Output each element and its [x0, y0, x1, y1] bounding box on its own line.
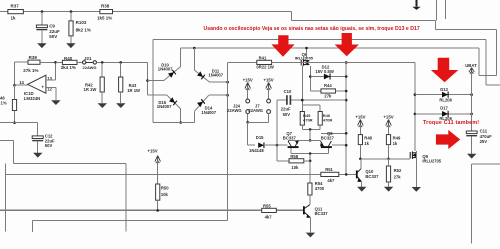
jumper J7 — [267, 99, 271, 103]
wire D11 vertical — [193, 48, 195, 70]
svg-text:470R: 470R — [323, 118, 333, 123]
wire gate row to Q9 — [360, 158, 408, 160]
node R45 R46 bottom — [309, 128, 312, 131]
resistor R46 — [318, 112, 322, 126]
node D12 right — [345, 75, 348, 78]
supply arrow +15V J7 — [266, 83, 272, 91]
wire bottom right exit — [471, 163, 500, 165]
wire C12 stem — [37, 123, 39, 136]
wire D15 node down — [276, 145, 278, 161]
wire D10 diagonal — [164, 67, 181, 81]
svg-text:50V: 50V — [49, 34, 57, 39]
transistor Q7 BC337 — [288, 141, 299, 148]
node junction R103 — [70, 10, 73, 13]
svg-text:27k 1%: 27k 1% — [23, 68, 38, 73]
svg-text:0R22 1W: 0R22 1W — [256, 64, 274, 69]
wire gate drive down — [301, 66, 303, 105]
node op-amp output — [13, 84, 16, 87]
node D15 C10 Q7 — [276, 144, 279, 147]
node D17 UBAT — [470, 113, 473, 116]
svg-text:R38: R38 — [101, 4, 110, 9]
svg-text:IRLU2705: IRLU2705 — [295, 55, 314, 60]
ground R42 — [98, 103, 107, 108]
wire D12 row — [310, 76, 346, 78]
wire R48 down — [359, 145, 361, 159]
wire +15V to R48 — [359, 125, 361, 135]
wire R52 to ground — [388, 182, 390, 187]
ground Q10 — [357, 187, 366, 192]
svg-text:R58: R58 — [290, 154, 298, 159]
svg-text:1N4007: 1N4007 — [158, 67, 173, 72]
ground R103 — [66, 43, 75, 48]
node J24 J7 join — [246, 121, 249, 124]
svg-text:4700: 4700 — [315, 186, 325, 191]
node D13 left — [414, 93, 417, 96]
wire +15V to J24 — [247, 88, 249, 100]
resistor R48 — [358, 135, 362, 145]
red arrow 4 right — [436, 130, 460, 149]
transistor Q6 IRLU2705 MOSFET — [301, 59, 309, 65]
svg-text:27k: 27k — [394, 174, 402, 179]
wire stub from top edge 2 — [444, 0, 446, 19]
resistor R103 — [69, 21, 73, 36]
transistor Q10 BC337 — [357, 169, 362, 182]
wire feedback left vertical — [14, 62, 16, 84]
svg-text:D13: D13 — [440, 87, 448, 92]
resistor R37 — [8, 10, 24, 14]
svg-text:1k: 1k — [364, 141, 369, 146]
resistor R42 — [100, 77, 104, 92]
wire R43 to ground — [120, 92, 122, 103]
wire R45 stem bottom — [301, 125, 303, 129]
wire R46 to node — [14, 111, 16, 123]
wire corner down — [13, 140, 15, 163]
ground C11 — [467, 154, 476, 159]
wire C12 to ground — [37, 141, 39, 153]
wire R39 right to node — [40, 61, 56, 63]
resistor R52 — [386, 166, 390, 182]
wire R42 stem — [101, 62, 103, 77]
wire D13 row — [415, 94, 472, 96]
svg-text:+15V: +15V — [148, 149, 158, 154]
capacitor C12 — [32, 136, 43, 139]
node bridge feed — [146, 79, 149, 82]
svg-text:+15V: +15V — [264, 77, 274, 82]
wire pin12 to ground — [55, 88, 57, 101]
wire bus B signal — [5, 173, 321, 175]
wire D10 entry — [148, 80, 164, 82]
diode D11 1N4007 — [197, 71, 205, 79]
ground op-amp — [51, 100, 60, 105]
wire Q9 drain — [415, 151, 417, 153]
wire loop top rail — [153, 38, 486, 40]
node C12 rail — [13, 121, 16, 124]
svg-text:R52: R52 — [394, 168, 402, 173]
wire bridge bottom rail — [153, 122, 194, 124]
svg-text:BC327: BC327 — [321, 135, 335, 140]
svg-text:25V: 25V — [480, 139, 488, 144]
node R48 Q10 — [359, 158, 362, 161]
svg-text:14: 14 — [19, 80, 24, 85]
wire R58 left — [277, 160, 289, 162]
svg-text:15V 0.5W: 15V 0.5W — [315, 69, 333, 74]
node rail D11 — [226, 81, 229, 84]
wire to collector rail — [309, 129, 311, 140]
diode D14 1N4007 — [197, 99, 205, 107]
wire D14 vertical — [193, 111, 195, 122]
svg-text:1N4007: 1N4007 — [201, 110, 216, 115]
wire step down — [291, 12, 293, 21]
op-amp IC1D LM324N — [28, 75, 46, 93]
node R44 right — [345, 90, 348, 93]
wire gate to Q9 — [409, 158, 411, 160]
wire output to R46 — [14, 85, 16, 99]
svg-text:+15V: +15V — [355, 114, 365, 119]
node R50 bus C — [156, 209, 159, 212]
wire Q8 emitter down — [328, 148, 330, 154]
svg-text:1%: 1% — [1, 101, 7, 106]
wire top node rail long — [181, 47, 479, 49]
wire R42 to ground — [101, 92, 103, 103]
wire D10 vertical up — [180, 48, 182, 67]
jumper J24 — [246, 99, 250, 103]
wire Q10 emitter — [361, 182, 363, 187]
svg-text:22AWG: 22AWG — [83, 65, 97, 70]
wire D11 diagonal — [194, 70, 209, 82]
wire stub from top edge 1 — [435, 0, 437, 20]
svg-text:22AWG: 22AWG — [248, 108, 263, 113]
diode D15 1N4148 — [258, 142, 264, 147]
node R58 right — [309, 160, 312, 163]
wire gate rail to D13 drop — [300, 61, 415, 63]
wire bus D — [32, 220, 227, 222]
svg-text:D17: D17 — [440, 105, 448, 110]
wire D15 to node — [265, 144, 277, 146]
wire C9 stem — [41, 12, 43, 25]
wire Q6 block right vertical — [345, 62, 347, 174]
wire Q11 emitter down — [309, 218, 311, 233]
node R39 R40 pin13 — [54, 61, 57, 64]
wire bus D left drop — [31, 221, 33, 232]
wire to R52 — [388, 159, 390, 166]
node R49 R52 — [387, 158, 390, 161]
ground R52 — [384, 187, 393, 192]
svg-text:R48: R48 — [364, 135, 372, 140]
wire R45 stem top — [301, 105, 303, 112]
wire UBAT vertical — [471, 72, 473, 131]
diode D10 1N4007 — [168, 70, 176, 78]
node Q10 base rail — [345, 173, 348, 176]
wire loop exit right — [486, 84, 500, 86]
node R43 top — [119, 61, 122, 64]
wire stepped rail — [292, 19, 436, 21]
node gate rail — [345, 61, 348, 64]
wire pin12 — [46, 87, 56, 89]
svg-text:1R 1W: 1R 1W — [127, 88, 140, 93]
node bridge bottom — [179, 121, 182, 124]
arrow down annotation black — [416, 0, 418, 7]
wire bus C — [0, 209, 303, 211]
node C10 rail right — [345, 99, 348, 102]
wire R40 to J21 — [77, 61, 83, 63]
wire J21 to bridge — [96, 61, 147, 63]
wire Q9 source down — [415, 158, 417, 187]
svg-text:R40: R40 — [64, 56, 73, 61]
wire Q8 base — [332, 144, 346, 146]
resistor R38 — [100, 10, 113, 14]
wire top node drop right — [478, 48, 480, 75]
svg-text:R49: R49 — [393, 135, 401, 140]
svg-text:UBAT: UBAT — [465, 63, 477, 68]
wire J24 down — [247, 114, 249, 123]
resistor R41 — [257, 60, 272, 64]
wire jumper join — [248, 121, 269, 123]
svg-text:R50: R50 — [161, 185, 169, 190]
wire Q6 drain up — [306, 48, 308, 59]
wire R46 stem top — [319, 105, 321, 112]
svg-text:J21: J21 — [84, 56, 92, 61]
ground C12 — [33, 153, 42, 158]
wire R44 row left — [310, 90, 321, 92]
wire R45 R46 top rail — [302, 104, 320, 106]
node R42 top — [101, 61, 104, 64]
wire R46 stem bottom — [319, 125, 321, 129]
svg-text:R44: R44 — [324, 83, 332, 88]
resistor R40 — [62, 60, 77, 64]
svg-text:+: + — [41, 85, 44, 90]
resistor R46 left edge — [12, 100, 16, 111]
svg-text:R39: R39 — [29, 55, 38, 60]
wire D16 entry — [148, 94, 168, 96]
wire loop right drop — [485, 39, 487, 85]
wire top signal rail — [0, 11, 292, 13]
node Q6 drain — [305, 47, 308, 50]
node D17 left — [414, 113, 417, 116]
wire pin13 — [46, 79, 56, 81]
wire R43 stem — [120, 62, 122, 77]
wire step down 2 — [435, 20, 437, 29]
node D11 top — [193, 47, 196, 50]
svg-text:BC337: BC337 — [365, 174, 379, 179]
wire joining link — [479, 74, 497, 76]
red arrow 3 down large — [431, 58, 458, 82]
node collector rail — [309, 139, 312, 142]
svg-text:4k7: 4k7 — [327, 178, 335, 183]
wire D11 out — [210, 81, 228, 83]
node branch — [345, 132, 348, 135]
diode D16 1N4007 — [169, 97, 177, 105]
supply arrow +15V R50 — [155, 156, 161, 164]
wire branch to Q8 — [321, 132, 346, 134]
wire stepped rail 2 — [436, 28, 497, 30]
svg-text:IRLU2705: IRLU2705 — [422, 159, 441, 164]
supply arrow +15V R49 — [386, 120, 392, 128]
wire collector rail — [288, 139, 320, 141]
supply arrow UBAT — [469, 68, 474, 75]
svg-text:RL206: RL206 — [439, 98, 452, 103]
svg-text:BC337: BC337 — [283, 135, 297, 140]
resistor R39 — [28, 60, 40, 64]
ground Q11 — [306, 233, 315, 238]
wire Q7 emitter down — [290, 148, 292, 154]
wire Q6 source down — [309, 66, 311, 91]
wire left edge entry — [0, 139, 14, 141]
resistor R43 — [119, 77, 123, 92]
svg-text:22AWG: 22AWG — [227, 108, 242, 113]
svg-text:Troque C11 tambem!: Troque C11 tambem! — [423, 120, 479, 126]
wire bridge right rail — [227, 62, 229, 220]
svg-text:8k2 1%: 8k2 1% — [76, 28, 91, 33]
svg-text:4k7: 4k7 — [265, 215, 273, 220]
red arrow 2 down — [335, 33, 359, 56]
wire emitter rail — [291, 153, 329, 155]
red arrow 1 down — [271, 35, 294, 57]
svg-text:R37: R37 — [11, 4, 20, 9]
transistor Q11 BC337 — [304, 205, 311, 218]
svg-text:1k: 1k — [393, 141, 398, 146]
ground C9 — [37, 43, 46, 48]
diode D17 RL206 — [442, 111, 448, 117]
svg-text:1N4148: 1N4148 — [249, 148, 264, 153]
wire bus A — [14, 162, 127, 164]
wire R49 down — [388, 145, 390, 159]
wire rail to R41 — [228, 61, 257, 63]
svg-text:LM324N: LM324N — [24, 96, 40, 101]
svg-text:3k4 1%: 3k4 1% — [61, 65, 76, 70]
wire bus A drop — [125, 163, 127, 231]
ground R43 — [116, 103, 125, 108]
svg-text:1k: 1k — [11, 16, 17, 21]
diode D13 RL206 — [442, 92, 448, 98]
svg-text:Usando o osciloscópio Veja se: Usando o osciloscópio Veja se os sinais … — [204, 26, 420, 32]
capacitor C11 — [466, 131, 477, 134]
svg-text:50V: 50V — [45, 143, 53, 148]
wire left stub vertical — [4, 163, 6, 231]
svg-text:D15: D15 — [256, 135, 264, 140]
svg-text:R103: R103 — [76, 20, 87, 25]
svg-text:1k5 1%: 1k5 1% — [97, 16, 112, 21]
resistor R54 — [308, 183, 312, 195]
ground arrow Q9 source — [412, 187, 421, 192]
resistor R58 — [289, 159, 304, 163]
transistor Q9 IRLU2705 MOSFET — [410, 151, 416, 159]
transistor Q8 BC327 — [320, 141, 332, 147]
svg-text:10k: 10k — [161, 192, 169, 197]
wire right edge drop — [495, 29, 497, 75]
node gate drive x C10 — [301, 99, 304, 102]
node junction C9 — [41, 10, 44, 13]
resistor R49 — [386, 135, 390, 145]
node Q8 base rail — [345, 144, 348, 147]
wire C10 left down — [276, 100, 278, 145]
wire C10 right — [291, 99, 346, 101]
wire D17 row — [415, 113, 472, 115]
wire R45 R46 bottom rail — [302, 128, 320, 130]
svg-text:R51: R51 — [325, 167, 333, 172]
wire D16 vertical down — [180, 109, 182, 123]
resistor R50 — [156, 184, 160, 200]
svg-text:27k: 27k — [324, 93, 332, 98]
wire left rail to C12 — [0, 122, 38, 124]
svg-text:+15V: +15V — [243, 77, 253, 82]
wire bottom right drop — [470, 164, 472, 244]
wire R39 left — [15, 61, 29, 63]
wire +15V to R50 — [157, 161, 159, 184]
svg-text:1N4007: 1N4007 — [208, 72, 223, 77]
wire D16 diagonal — [167, 95, 181, 109]
node D12 left — [309, 75, 312, 78]
wire bridge feed vertical — [147, 62, 149, 95]
wire +15V to J7 — [268, 88, 270, 100]
supply arrow +15V R48 — [358, 120, 364, 128]
wire R103 to ground — [70, 36, 72, 43]
svg-text:1R 1W: 1R 1W — [84, 87, 97, 92]
svg-text:C10: C10 — [284, 89, 292, 94]
resistor R51 — [321, 172, 339, 176]
svg-text:R41: R41 — [259, 55, 267, 60]
wire R54 to Q11 — [309, 195, 311, 205]
wire R41 to Q6 gate — [272, 61, 300, 63]
diode D12 zener 15V — [324, 74, 330, 80]
wire emitter down to R54 — [309, 154, 311, 183]
svg-text:10k: 10k — [291, 165, 299, 170]
wire to D15 — [248, 144, 256, 146]
svg-text:470R: 470R — [303, 118, 313, 123]
capacitor C10 — [286, 95, 288, 105]
wire loop left edge — [152, 39, 154, 122]
node emitter rail — [309, 152, 312, 155]
wire R51 to Q10 — [339, 173, 357, 175]
wire down to D13 D17 rail — [414, 62, 416, 150]
wire R103 stem — [70, 12, 72, 22]
wire Q10 collector — [360, 159, 362, 169]
wire D14 out — [209, 94, 228, 96]
supply arrow +15V J24 — [245, 83, 251, 91]
wire Q7 base — [277, 144, 288, 146]
resistor R44 — [321, 89, 336, 93]
node rail D14 — [226, 94, 229, 97]
wire R50 down — [157, 200, 159, 210]
wire R58 right — [304, 160, 310, 162]
wire C9 to ground — [41, 30, 43, 43]
node D13 UBAT — [470, 93, 473, 96]
capacitor C9 — [36, 25, 47, 28]
resistor R55 — [262, 208, 277, 212]
jumper J21 — [83, 61, 86, 64]
wire +15V to R49 — [388, 125, 390, 135]
wire op-amp output — [15, 84, 28, 86]
wire C10 left — [277, 99, 286, 101]
resistor R45 — [300, 112, 304, 126]
svg-text:R55: R55 — [263, 203, 271, 208]
wire C11 to ground — [471, 136, 473, 153]
wire R44 row right — [336, 90, 347, 92]
wire node to pin13 — [55, 62, 57, 80]
wire node to R40 — [56, 61, 63, 63]
wire J7 down — [268, 114, 270, 123]
svg-text:BC337: BC337 — [315, 211, 329, 216]
wire D14 diagonal — [194, 95, 208, 111]
svg-text:1N4007: 1N4007 — [157, 104, 172, 109]
wire node down to D15 — [247, 122, 249, 145]
svg-text:50V: 50V — [283, 112, 291, 117]
svg-text:+15V: +15V — [383, 114, 393, 119]
